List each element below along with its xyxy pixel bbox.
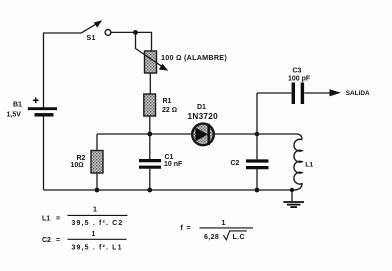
svg-text:B1: B1 — [13, 102, 22, 109]
resistor R2 body — [91, 151, 103, 174]
junction dot R1/C1 on middle bus — [147, 132, 152, 137]
wire: middle bus junction to inductor top — [257, 134, 302, 140]
svg-text:R2: R2 — [77, 155, 86, 162]
diode D1 triangle — [196, 128, 209, 142]
svg-text:6,28: 6,28 — [204, 234, 219, 241]
svg-text:C2: C2 — [42, 237, 51, 244]
output arrowhead — [330, 89, 342, 96]
capacitor C2 plates — [246, 159, 269, 162]
svg-text:L1: L1 — [305, 161, 313, 168]
resistor R1 body — [144, 94, 156, 116]
svg-text:L.C: L.C — [233, 234, 245, 241]
svg-text:1: 1 — [222, 220, 226, 227]
diode D1 cathode bar — [207, 124, 209, 145]
svg-text:1,5V: 1,5V — [7, 111, 22, 118]
wire: R2 top lead from middle bus — [96, 134, 98, 151]
svg-text:SALIDA: SALIDA — [346, 90, 370, 97]
wire: left rail top (battery + up and across to switch) — [44, 33, 82, 108]
svg-text:39,5 . f². C2: 39,5 . f². C2 — [72, 220, 124, 227]
svg-text:22 Ω: 22 Ω — [162, 107, 177, 114]
middle bus wire — [97, 133, 257, 135]
svg-text:100 pF: 100 pF — [288, 76, 311, 83]
wire: C1 top lead — [149, 134, 151, 159]
battery B1 plus sign — [33, 98, 39, 104]
svg-text:=: = — [187, 225, 191, 232]
svg-text:C3: C3 — [293, 68, 302, 75]
svg-text:10Ω: 10Ω — [71, 162, 84, 169]
svg-text:C1: C1 — [165, 154, 174, 161]
svg-text:S1: S1 — [86, 33, 95, 42]
wire: C3 to output arrow — [304, 92, 330, 94]
svg-text:R1: R1 — [163, 98, 172, 105]
junction dot C1 bottom — [147, 188, 152, 193]
svg-text:1: 1 — [92, 231, 96, 238]
svg-text:1: 1 — [93, 207, 97, 214]
battery B1 plates — [28, 107, 57, 110]
bottom bus wire — [44, 189, 293, 191]
wire: C1 bottom lead — [149, 169, 151, 190]
svg-text:L1: L1 — [42, 215, 50, 222]
switch S1 arrowhead — [94, 20, 102, 27]
wire: R1 bottom to middle bus — [149, 116, 151, 134]
svg-text:f: f — [181, 225, 184, 232]
inductor L1 coil — [293, 139, 303, 190]
switch S1 blade — [82, 23, 98, 33]
potentiometer wiper arrow — [136, 49, 163, 67]
junction dot at switch wire — [133, 30, 138, 35]
wire: junction down to pot wiper — [135, 32, 137, 49]
junction dot ground node — [290, 188, 294, 192]
potentiometer body 100 ohm — [145, 51, 157, 73]
junction dot C2 bottom on bus — [255, 188, 260, 193]
diode D1 body circle — [192, 124, 214, 146]
ground symbol — [291, 190, 293, 202]
svg-text:=: = — [56, 215, 60, 222]
svg-text:100 Ω (ALAMBRE): 100 Ω (ALAMBRE) — [161, 53, 227, 62]
junction dot R2 bottom — [95, 188, 100, 193]
svg-text:10 nF: 10 nF — [164, 161, 183, 168]
wire: left rail bottom — [43, 117, 45, 191]
svg-text:D1: D1 — [197, 104, 206, 111]
right rail wire — [256, 93, 258, 159]
svg-text:=: = — [56, 237, 60, 244]
junction dot middle bus / right rail — [255, 132, 260, 137]
wire: R2 bottom lead to bottom bus — [96, 173, 98, 190]
wire: rail top corner to C3 — [257, 92, 292, 94]
wire: switch contact to pot top — [111, 32, 151, 51]
svg-text:C2: C2 — [231, 160, 240, 167]
switch S1 contact circle — [105, 30, 111, 36]
svg-text:1N3720: 1N3720 — [188, 112, 219, 121]
capacitor C3 plates — [292, 83, 295, 105]
svg-text:39,5 . f². L1: 39,5 . f². L1 — [72, 245, 123, 252]
capacitor C1 plates — [139, 159, 161, 162]
wire: pot bottom to R1 top — [149, 73, 151, 94]
